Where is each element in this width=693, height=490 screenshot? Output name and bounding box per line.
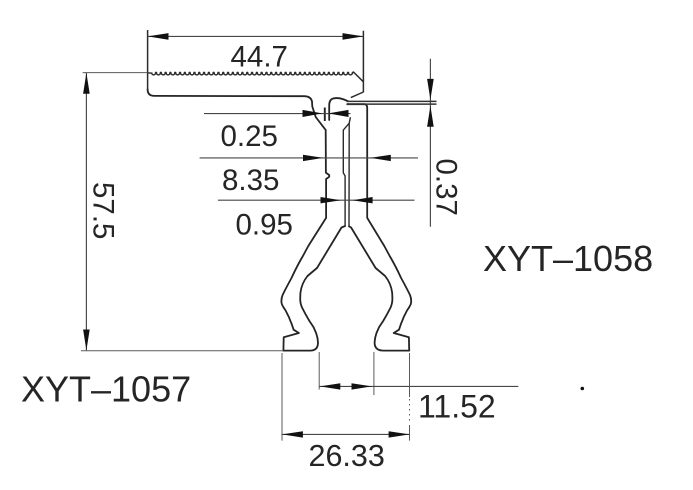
svg-text:57.5: 57.5: [87, 182, 120, 239]
dimension 0.37 lower extension line: [347, 103, 437, 105]
dimension 57.5 bottom arrow: [83, 330, 90, 351]
curl hook: [329, 98, 348, 120]
dimension 57.5 top extension line: [83, 72, 148, 74]
dimension 57.5 top arrow: [83, 73, 90, 94]
dimension 44.7 left arrow: [148, 33, 169, 40]
left stem wall inner edge (0.95 slot left side): [343, 123, 349, 226]
profile bar serrated top edge: [148, 72, 354, 75]
svg-text:0.37: 0.37: [430, 159, 463, 216]
profile bar left edge (also 44.7 extension line): [147, 30, 149, 89]
dimension 8.35 right arrow: [371, 155, 391, 161]
dimension 0.25 line: [204, 113, 351, 115]
dimension 11.52 right extension line: [373, 352, 375, 395]
dimension 0.37 vertical line: [429, 59, 431, 227]
dimension 8.35 left arrow: [303, 155, 323, 161]
svg-text:XYT–1057: XYT–1057: [21, 368, 191, 409]
dimension 0.37 upper extension line: [347, 100, 437, 102]
stray dot: [581, 387, 585, 391]
svg-text:0.25: 0.25: [221, 120, 278, 153]
dimension 0.37 down arrow: [427, 79, 434, 100]
dimension 0.25 left arrow: [303, 110, 323, 117]
svg-text:44.7: 44.7: [231, 41, 288, 74]
left foot bottom and inner edge: [283, 226, 345, 351]
dimension 0.95 left arrow: [321, 197, 341, 203]
dimension 0.95 line: [218, 199, 415, 201]
dimension 0.95 right arrow: [352, 197, 372, 203]
dimension 11.52 right arrow: [352, 383, 372, 389]
dimension 0.25 left extension line: [324, 108, 326, 122]
dimension 0.25 right arrow: [328, 110, 348, 117]
dimension 57.5 line: [85, 73, 87, 351]
dimension 26.33 right arrow: [389, 431, 410, 437]
dimension 57.5 bottom extension line: [81, 350, 284, 352]
profile bar right edge with chamfers (also 44.7 extension line): [351, 31, 364, 98]
svg-text:0.95: 0.95: [236, 208, 293, 241]
dimension 8.35 line: [200, 157, 418, 159]
dimension 26.33 line: [282, 433, 410, 435]
dimension 11.52 left extension line: [318, 352, 320, 390]
dimension 26.33 right extension line (partly dotted): [409, 353, 411, 397]
dimension 26.33 left arrow: [282, 431, 303, 437]
svg-text:26.33: 26.33: [309, 439, 385, 473]
right stem wall inner edge (0.95 slot right side): [349, 117, 350, 226]
dimension 11.52 left arrow: [320, 383, 340, 389]
dimension 0.37 up arrow: [427, 106, 434, 127]
svg-text:8.35: 8.35: [222, 164, 279, 197]
profile bar bottom edge, corner, V-notch and left stem wall outer edge: [148, 89, 330, 350]
right stem wall outer edge, flare, right foot, inner cavity right side: [347, 104, 411, 350]
dimension 11.52 line: [319, 385, 518, 387]
dimension 44.7 line: [148, 35, 364, 37]
dimension 44.7 right arrow: [343, 33, 364, 40]
svg-text:XYT–1058: XYT–1058: [483, 238, 653, 279]
svg-text:11.52: 11.52: [418, 389, 496, 425]
dimension 26.33 left extension line: [281, 353, 283, 441]
